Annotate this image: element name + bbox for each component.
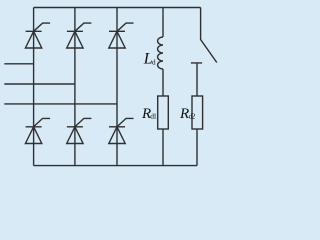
wire resistor Rd1 to bottom rail — [162, 129, 164, 166]
switch S blade (open) — [201, 8, 217, 63]
svg-text:d1: d1 — [150, 112, 157, 121]
resistor Rd1 body — [158, 96, 169, 129]
wire bridge leg 2 — [74, 8, 76, 166]
inductor Ld coil — [158, 37, 163, 69]
thyristor VT5 (top, leg 3) — [109, 23, 134, 48]
thyristor VT6 (bottom, leg 2) — [67, 118, 92, 143]
wire AC phase input c — [4, 103, 117, 105]
label Rd2 — [179, 106, 196, 122]
thyristor VT1 (top, leg 1) — [25, 23, 50, 48]
thyristor VT3 (top, leg 2) — [67, 23, 92, 48]
wire bottom DC rail — [34, 165, 197, 167]
wire AC phase input a — [4, 63, 33, 65]
svg-text:d: d — [152, 58, 156, 66]
wire inductor to resistor Rd1 — [162, 69, 164, 96]
wire bridge leg 1 — [33, 8, 35, 166]
switch S fixed contact — [191, 63, 202, 96]
svg-text:d2: d2 — [189, 112, 196, 121]
resistor Rd2 body — [192, 96, 203, 129]
thyristor VT2 (bottom, leg 3) — [109, 118, 134, 143]
wire AC phase input b — [4, 83, 75, 85]
label Ld — [143, 51, 156, 68]
label Rd1 — [141, 106, 157, 122]
thyristor VT4 (bottom, leg 1) — [25, 118, 50, 143]
wire load branch upper (top rail to inductor) — [162, 8, 164, 38]
wire resistor Rd2 to bottom rail — [196, 129, 198, 166]
wire top DC rail — [34, 7, 201, 9]
wire bridge leg 3 — [116, 8, 118, 166]
